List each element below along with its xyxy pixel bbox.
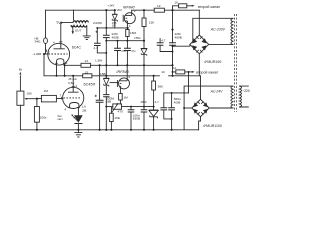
svg-text:400В: 400В — [112, 36, 119, 40]
tube V1 cathode — [57, 59, 64, 65]
pin ticks — [46, 42, 80, 107]
wire coupling capB leads — [171, 93, 173, 130]
mosfet Q2 IRF840 — [117, 78, 129, 89]
wire TV1 secondary right stub — [86, 25, 88, 35]
input arrow head — [19, 72, 21, 75]
wire trimmer line — [106, 107, 153, 130]
wire VD3 zener top lead — [105, 76, 107, 78]
svg-text:3: 3 — [75, 84, 77, 88]
trimmer 470 — [113, 104, 122, 109]
wire arrow lower tap — [189, 71, 194, 73]
zener VD4 150V — [149, 110, 158, 118]
svg-text:1М: 1М — [123, 96, 128, 100]
transformer T1 winding 220 primary — [239, 86, 241, 107]
wire mosfet2 source chain — [119, 89, 121, 104]
transformer T1 core — [234, 14, 236, 112]
capacitor coupling B 560n — [168, 108, 175, 110]
wire coupling line — [164, 92, 189, 94]
resistor lower tap 1K — [176, 70, 185, 74]
resistor mosfet1 source 1M — [126, 30, 129, 37]
svg-text:4: 4 — [64, 108, 66, 112]
svg-text:+14V: +14V — [108, 4, 116, 8]
resistor 56K — [152, 81, 156, 90]
svg-text:1W: 1W — [112, 24, 116, 28]
capacitor Cb gate chain — [124, 48, 131, 50]
wire winding1 bottom lead — [209, 43, 233, 45]
svg-text:1К: 1К — [161, 70, 165, 74]
resistor 15K — [142, 18, 146, 27]
resistor 100k — [34, 107, 39, 123]
svg-text:150v: 150v — [134, 36, 141, 40]
wire DC minus line to bridge1 — [173, 44, 190, 46]
svg-text:400В: 400В — [175, 36, 182, 40]
wire B+ top rail left segment — [46, 9, 115, 11]
LED arrows — [72, 115, 77, 121]
svg-text:400В: 400В — [174, 101, 181, 105]
capacitor mid pair C2 — [169, 43, 176, 45]
wire TV1 right vertical — [105, 10, 107, 28]
wire bridge2 left to rail — [184, 107, 192, 109]
wire winding2 top lead — [184, 86, 233, 130]
svg-text:AC-230V: AC-230V — [210, 27, 226, 31]
wire coupling capA leads — [164, 93, 172, 119]
svg-text:второй канал: второй канал — [196, 71, 218, 75]
mosfet Q1 IRF840 — [123, 13, 135, 24]
wire top tap to second channel — [173, 6, 179, 10]
capacitor C 22M 400V (left) — [103, 35, 110, 37]
resistor 13 (line1) — [81, 63, 91, 67]
svg-text:20К: 20К — [27, 91, 32, 95]
LED bias — [74, 115, 83, 123]
wire TV1 secondary left out stub — [71, 25, 73, 32]
wire lower tap to second channel — [173, 72, 189, 93]
wire tube1 grid lead — [44, 53, 48, 55]
svg-text:4*MUR190: 4*MUR190 — [204, 60, 221, 64]
svg-text:4,7: 4,7 — [161, 39, 166, 43]
capacitor bypass 220M — [96, 100, 104, 102]
capacitor 100n-630 A — [128, 110, 135, 112]
wire grid resistor drop from top rail — [45, 10, 47, 54]
arrow OUT head — [72, 31, 74, 34]
wire 100n-630 caps drops — [130, 107, 132, 130]
transformer TV1 primary winding — [73, 21, 88, 23]
resistor 15 (line2) — [83, 74, 92, 78]
wire primary 220 leads — [239, 86, 248, 107]
pot wiper arrow head — [24, 98, 27, 100]
arrow head lower tap — [192, 71, 195, 73]
wire mosfet2 drain — [126, 65, 128, 78]
svg-text:~220: ~220 — [242, 89, 250, 93]
tube V1 grid — [48, 53, 67, 55]
wire B+ top rail right segment — [132, 9, 200, 11]
resistor B+ rail 1K — [154, 8, 164, 12]
wire tube2 anode lead — [72, 76, 74, 88]
arrow head top tap — [192, 5, 195, 7]
transformer T1 winding AC-24V — [231, 86, 233, 108]
potentiometer 20K body — [17, 91, 24, 105]
zener VD3 15V — [104, 78, 110, 86]
svg-text:1: 1 — [129, 24, 131, 28]
wire 15K resistor drop — [143, 10, 145, 130]
wire VD3 chain — [105, 86, 107, 130]
svg-text:OUT: OUT — [75, 28, 82, 32]
tube V2 grid — [63, 97, 81, 99]
bridge VD5 rectifier 1 — [190, 35, 209, 54]
wire TV1 primary feed from rail — [73, 10, 75, 20]
svg-text:-1,02В: -1,02В — [33, 52, 42, 56]
resistor top tap 1K — [179, 4, 187, 8]
junction dots — [36, 9, 190, 131]
svg-text:2х1800: 2х1800 — [93, 21, 102, 25]
svg-text:2: 2 — [128, 75, 130, 79]
wire mid caps pair — [160, 39, 172, 52]
tube V1 plate — [54, 45, 65, 49]
capacitor Ca gate chain — [114, 48, 121, 50]
resistor grid 1M tube2 — [41, 95, 56, 102]
wire bridge2 right to winding2 — [209, 107, 233, 109]
wire 56K drop — [153, 76, 155, 130]
svg-text:1М: 1М — [44, 89, 49, 93]
wire cap 4.7 upper leads — [97, 28, 106, 53]
wire pot bottom — [19, 105, 21, 130]
svg-text:7: 7 — [60, 93, 62, 97]
wire bridge1 top feed — [198, 10, 200, 35]
capacitor 100n-630 B — [141, 110, 148, 112]
tube V2 cathode — [70, 103, 79, 109]
svg-text:свет: свет — [58, 118, 64, 121]
plus mark cap22M — [96, 31, 98, 33]
svg-text:100к: 100к — [40, 116, 47, 120]
capacitor mid pair C1 — [157, 43, 164, 45]
svg-text:4,7: 4,7 — [155, 100, 160, 104]
svg-text:VD2: VD2 — [117, 8, 123, 12]
resistor grid oval V1 — [44, 38, 48, 44]
tube V2 plate — [68, 87, 79, 92]
wire bridge2 bottom to rail end — [199, 117, 201, 130]
svg-text:150v: 150v — [140, 100, 147, 104]
wire line2 — [44, 54, 200, 76]
svg-text:630В: 630В — [133, 117, 140, 121]
wire bridge1 bottom to bridge2 top — [199, 54, 200, 100]
wire tube2 cathode to LED — [77, 108, 79, 130]
svg-text:2В: 2В — [82, 108, 86, 112]
svg-text:56К: 56К — [158, 84, 163, 88]
svg-text:1,5W: 1,5W — [95, 59, 102, 63]
wire arrow top tap — [187, 5, 192, 7]
svg-text:13: 13 — [85, 59, 89, 63]
svg-text:второй канал: второй канал — [198, 5, 220, 9]
wire tube2 grid lead — [37, 98, 63, 100]
ground symbol TV1 — [83, 36, 91, 40]
svg-text:4,7: 4,7 — [94, 46, 99, 50]
svg-text:IRF840: IRF840 — [116, 70, 129, 74]
wire line1 cathode — [65, 64, 173, 66]
tube V2 6C45P envelope — [63, 87, 84, 108]
zener VD2 — [112, 14, 117, 21]
wire bypass cap line1 drop — [99, 65, 101, 130]
wire cap 22M top chain — [105, 28, 107, 76]
wire pot input arrow line — [19, 76, 21, 91]
transformer T1 winding AC-230V — [231, 18, 233, 44]
wire zener VD2 leads — [114, 10, 116, 28]
transformer TV1 secondary winding — [71, 25, 87, 27]
svg-text:16В: 16В — [106, 100, 111, 104]
bridge VD6 rectifier 2 — [192, 99, 209, 116]
capacitor C 4.7 — [94, 43, 101, 45]
svg-text:AC-24V: AC-24V — [210, 90, 224, 94]
svg-text:1К: 1К — [173, 66, 177, 70]
ground symbol below rail — [74, 130, 82, 137]
svg-text:6С4С: 6С4С — [72, 45, 82, 49]
trimmer arrow — [112, 104, 118, 112]
svg-text:0,8A: 0,8A — [68, 81, 74, 85]
wire ground rail — [20, 129, 198, 131]
svg-text:15К: 15К — [149, 21, 154, 25]
wire tube1 cathode drops — [57, 65, 65, 76]
resistor mosfet2 source 1M — [119, 94, 123, 101]
capacitor coupling A 560n — [160, 108, 167, 110]
wire tube1 anode to TV1 primary — [61, 22, 73, 45]
wire winding1 top lead — [193, 18, 233, 42]
svg-text:15: 15 — [85, 70, 89, 74]
wire pot wiper — [26, 98, 37, 100]
wire mosfet1 drain — [131, 10, 133, 13]
svg-text:15В: 15В — [100, 72, 106, 76]
svg-text:47н: 47н — [131, 50, 136, 53]
svg-text:4*MUR1100: 4*MUR1100 — [203, 124, 222, 128]
wire 100k resistor leads — [36, 99, 38, 130]
svg-text:6С45П: 6С45П — [84, 83, 96, 87]
wire mosfet1 source chain — [106, 24, 144, 66]
svg-text:1К: 1К — [157, 4, 161, 8]
svg-text:TV1: TV1 — [56, 21, 63, 25]
zener VD 150v node — [141, 48, 147, 55]
svg-text:10Е: 10Е — [114, 116, 120, 120]
tube V1 6C4C envelope — [48, 43, 70, 65]
wire mosfet2 gate lead — [110, 82, 117, 84]
svg-text:3461: 3461 — [35, 40, 42, 44]
svg-text:1К: 1К — [174, 0, 178, 4]
wire B+ drop x172.5 with cap22M-2 — [172, 10, 174, 76]
svg-text:15М: 15М — [130, 31, 136, 35]
svg-text:47н: 47н — [121, 50, 126, 53]
wire gate line under zener VD2 — [98, 27, 129, 29]
svg-text:2: 2 — [134, 9, 136, 13]
svg-text:470: 470 — [118, 110, 123, 114]
plus mark bypass cap — [95, 95, 97, 97]
capacitor 100n (VD3 chain) — [103, 95, 109, 97]
resistor 10E — [110, 113, 114, 121]
